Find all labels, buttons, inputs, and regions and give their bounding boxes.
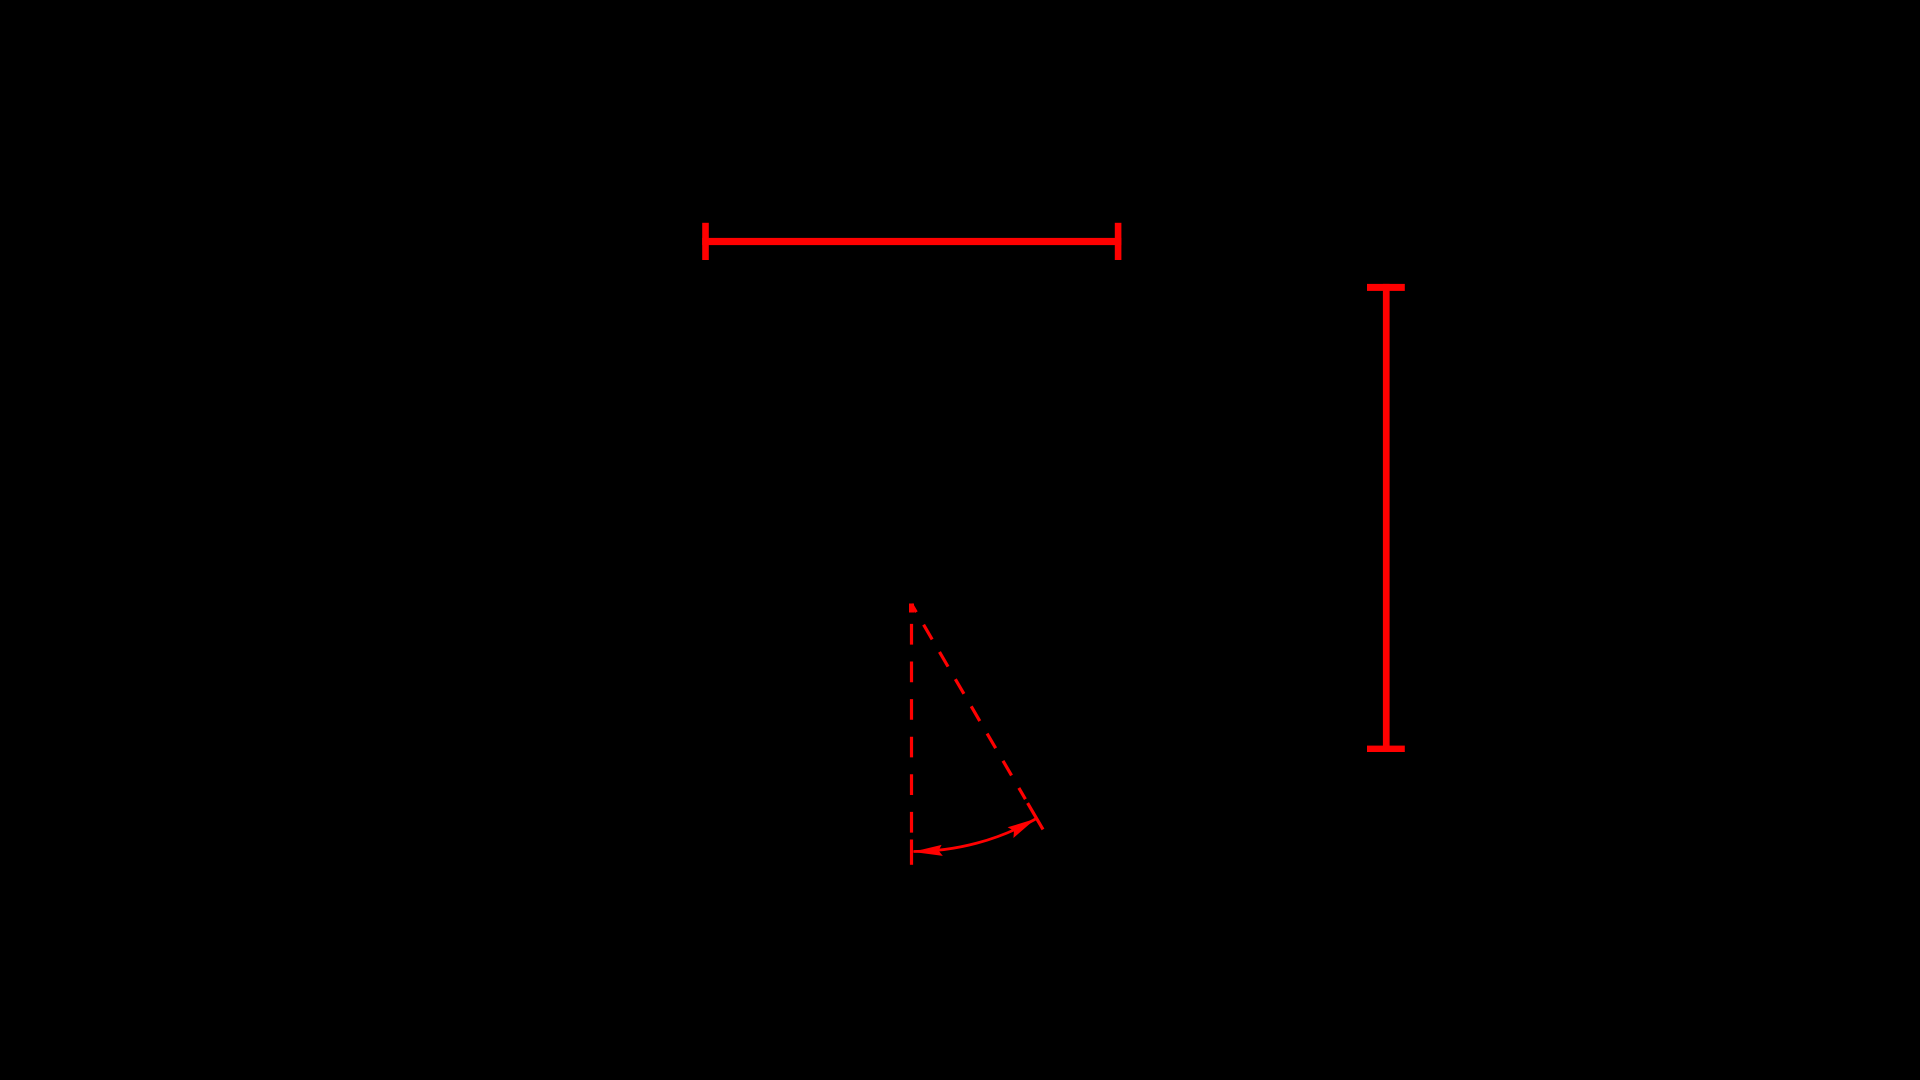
bottom tick [1367, 746, 1405, 752]
swing line dashed (30 deg) [912, 604, 1044, 829]
top tick [1367, 284, 1405, 291]
right tick [1115, 223, 1122, 260]
end dash [1028, 803, 1043, 829]
bottom end dash [910, 840, 913, 865]
pivot blob [909, 604, 914, 613]
width dimension (top horizontal) [702, 223, 1121, 260]
dimension bar [1383, 284, 1390, 752]
angle arc [914, 819, 1036, 852]
arc right arrowhead [1008, 819, 1036, 838]
vertical reference dashed line [910, 604, 913, 865]
arc left arrowhead [913, 845, 943, 856]
height dimension (right vertical) [1367, 284, 1405, 752]
dimension bar [702, 238, 1121, 245]
left tick [702, 223, 709, 260]
